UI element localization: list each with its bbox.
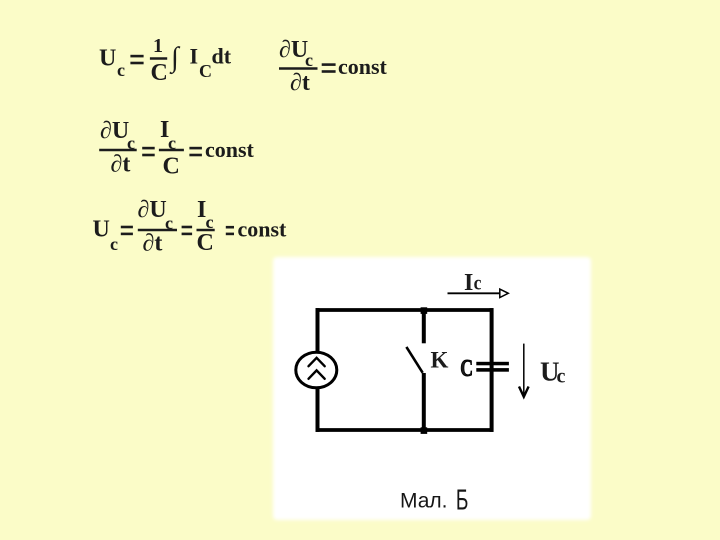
svg-text:∂t: ∂t: [290, 70, 310, 96]
svg-text:C: C: [151, 60, 168, 86]
svg-text:c: c: [110, 234, 118, 254]
formula row1 right: dUc/dt = const: [279, 37, 388, 96]
svg-text:∂U: ∂U: [138, 197, 167, 223]
wire left upper: [316, 308, 320, 352]
wire switch upper: [422, 310, 426, 343]
Ic arrowhead open: [500, 289, 509, 297]
formula row1: Uc = 1/C ∫ Ic dt: [99, 35, 232, 86]
svg-text:const: const: [338, 54, 388, 79]
svg-text:K: K: [431, 347, 449, 372]
svg-text:∂t: ∂t: [111, 151, 131, 177]
wire top: [316, 308, 494, 312]
current source G1 circle: [296, 352, 337, 388]
svg-text:1: 1: [153, 35, 163, 57]
svg-text:C: C: [197, 230, 214, 256]
svg-text:c: c: [117, 60, 125, 80]
node junction bottom: [421, 427, 428, 434]
svg-text:I: I: [464, 270, 473, 296]
svg-text:∂U: ∂U: [100, 118, 129, 144]
Ic arrow shaft: [448, 292, 500, 294]
wire left lower: [316, 388, 320, 432]
current source G1 chevron lower: [309, 370, 325, 378]
wire bottom: [316, 428, 494, 432]
svg-text:U: U: [99, 45, 116, 71]
svg-text:C: C: [163, 153, 180, 179]
svg-text:c: c: [305, 50, 313, 70]
svg-text:U: U: [93, 217, 110, 243]
svg-text:const: const: [205, 137, 255, 162]
formula row2: dUc/dt = Ic/C = const: [99, 117, 254, 179]
svg-text:Мал.: Мал.: [400, 489, 448, 512]
svg-text:∂U: ∂U: [279, 37, 308, 63]
white image box: [273, 257, 591, 520]
switch K blade: [406, 347, 422, 373]
svg-text:dt: dt: [212, 44, 232, 69]
capacitor C plates: [476, 362, 509, 366]
svg-text:∂t: ∂t: [143, 231, 163, 257]
circuit loop wires: [316, 308, 494, 432]
wire switch lower: [422, 373, 426, 430]
svg-text:Б: Б: [456, 485, 469, 517]
wire right: [490, 308, 494, 432]
svg-text:c: c: [557, 366, 566, 388]
svg-text:I: I: [190, 44, 199, 69]
Uc down arrow: [523, 344, 525, 395]
node junction top: [421, 307, 428, 314]
svg-text:C: C: [199, 61, 212, 81]
current source G1 chevron upper: [309, 358, 325, 366]
svg-text:const: const: [238, 217, 288, 242]
svg-text:C: C: [460, 354, 473, 381]
svg-text:c: c: [474, 273, 482, 295]
formula row3: Uc = dUc/dt = Ic/C = const: [93, 197, 288, 257]
